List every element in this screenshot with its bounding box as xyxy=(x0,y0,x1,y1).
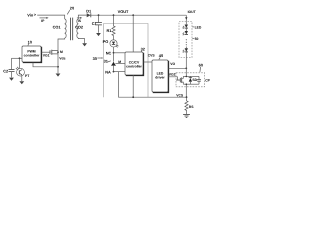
node NA xyxy=(105,69,125,74)
svg-text:50: 50 xyxy=(195,37,199,41)
wire VOUT rail xyxy=(91,14,187,16)
wire secondary bottom to ground xyxy=(78,38,84,43)
junction PT collector tap xyxy=(19,57,21,59)
transistor Q60 switch xyxy=(176,76,183,84)
node 50 label leader xyxy=(192,37,198,41)
block 30 boundary xyxy=(104,24,148,98)
current arrow IS xyxy=(77,17,82,23)
transformer T 20 label xyxy=(67,6,74,15)
wire PWM input from opto xyxy=(12,57,23,59)
ground (secondary) xyxy=(82,43,87,46)
svg-text:30: 30 xyxy=(93,56,97,61)
transformer core xyxy=(71,18,73,41)
ground (M1 source) xyxy=(56,74,61,77)
wire main through box 60 xyxy=(185,68,187,97)
svg-text:CO1: CO1 xyxy=(53,24,62,29)
svg-text:CVS: CVS xyxy=(148,54,156,58)
transformer primary winding CO1 xyxy=(53,19,67,38)
diode D1 xyxy=(86,9,92,18)
wire VG1 gate drive xyxy=(42,52,50,57)
wire CC/CV top pin to VOUT xyxy=(132,15,134,52)
node NC xyxy=(106,50,125,55)
node LED label leader xyxy=(192,26,202,30)
svg-text:60: 60 xyxy=(199,62,203,67)
current arrow IP xyxy=(40,17,49,23)
wire NC to transistor xyxy=(113,53,115,62)
junction CC/CV bottom on rail xyxy=(132,96,134,98)
junction bottom of SD branch xyxy=(186,83,188,85)
node 40 label xyxy=(159,53,163,59)
ground (RS signal ground) xyxy=(183,114,190,117)
transformer secondary winding CO2 xyxy=(75,19,84,38)
svg-text:D1: D1 xyxy=(86,9,92,14)
junction C1 tap xyxy=(98,14,100,16)
svg-text:NA: NA xyxy=(105,69,111,74)
capacitor C2 xyxy=(3,58,14,77)
LED D-L1 xyxy=(183,25,188,29)
wire Vin to transformer primary xyxy=(37,15,64,19)
svg-text:LED: LED xyxy=(195,26,202,30)
svg-text:C2: C2 xyxy=(3,68,9,73)
svg-text:SD: SD xyxy=(192,78,197,82)
block 60 protection dashed box xyxy=(176,73,205,87)
svg-text:driver: driver xyxy=(155,76,165,80)
node 32 label xyxy=(141,47,146,52)
op-block CC/CV controller 32 xyxy=(125,52,144,76)
node IOUT label xyxy=(185,10,197,24)
svg-text:M: M xyxy=(118,60,121,64)
transistor Q31 with label M xyxy=(104,58,125,65)
ground (C1) xyxy=(96,33,101,36)
svg-text:CP: CP xyxy=(205,79,210,83)
junction CC/CV supply tap xyxy=(132,14,134,16)
transistor PT opto phototransistor xyxy=(16,58,30,78)
LED D-L2 xyxy=(183,31,188,35)
opto-coupler LED PO xyxy=(103,39,119,47)
svg-text:controller: controller xyxy=(24,54,40,58)
transistor M1 power MOSFET xyxy=(50,50,66,61)
wire CVS xyxy=(144,54,156,62)
wire VG2 xyxy=(169,72,180,80)
LED D-L3 xyxy=(183,47,188,53)
block 50 LED string dashed box xyxy=(179,22,192,58)
wire transistor to NA xyxy=(113,65,115,71)
svg-text:controller: controller xyxy=(126,65,142,69)
ground (C2) xyxy=(9,78,14,81)
svg-text:20: 20 xyxy=(70,6,74,11)
node Vin input label xyxy=(27,12,37,17)
capacitor C1 xyxy=(92,15,102,33)
node 30 label with leader xyxy=(93,56,104,61)
capacitor CP xyxy=(197,76,211,84)
svg-text:VO: VO xyxy=(170,62,175,66)
ellipsis dots of LED string xyxy=(186,39,187,45)
svg-text:PO: PO xyxy=(103,39,109,44)
svg-text:VOUT: VOUT xyxy=(118,9,129,14)
op-block LED driver 40 xyxy=(152,60,169,93)
resistor R1 xyxy=(107,15,116,39)
wire PO to NC xyxy=(113,47,115,53)
junction top of SD branch xyxy=(186,76,188,78)
wire internal top rail box60 xyxy=(183,75,199,77)
svg-text:40: 40 xyxy=(159,53,163,58)
wire NA down to bottom rail xyxy=(119,72,187,98)
node 60 label xyxy=(199,62,203,72)
wire VO sense xyxy=(169,62,188,69)
ground (PT) xyxy=(19,81,24,84)
wire LED1-LED2 xyxy=(185,28,187,31)
junction source/sense xyxy=(57,66,59,68)
wire PWM sense to source node xyxy=(33,63,58,67)
svg-text:NC: NC xyxy=(106,50,112,55)
svg-text:CO2: CO2 xyxy=(75,24,84,29)
wire primary bottom jog to MOSFET drain xyxy=(58,38,65,50)
wire secondary top to D1 xyxy=(78,15,86,19)
wire internal bottom rail box60 xyxy=(183,83,199,85)
svg-text:Vds: Vds xyxy=(59,56,65,60)
op-block PWM controller 10 xyxy=(22,46,42,63)
node 10 label xyxy=(28,39,32,45)
wire PT emitter down xyxy=(21,75,23,81)
junction VCS / RS xyxy=(186,96,188,98)
resistor RS xyxy=(185,97,194,114)
svg-text:VG1: VG1 xyxy=(43,54,50,58)
wire MOSFET source down xyxy=(57,50,59,74)
svg-text:VCS: VCS xyxy=(176,94,184,98)
wire LED string bottom to VO node xyxy=(185,52,187,68)
diode SD xyxy=(189,76,198,84)
wire CC/CV bottom pin to bottom rail xyxy=(132,75,134,97)
junction R1 tap xyxy=(113,14,115,16)
svg-text:M: M xyxy=(60,50,63,54)
svg-text:VG2: VG2 xyxy=(169,72,176,76)
svg-text:IOUT: IOUT xyxy=(188,10,197,14)
svg-text:RS: RS xyxy=(189,105,194,109)
